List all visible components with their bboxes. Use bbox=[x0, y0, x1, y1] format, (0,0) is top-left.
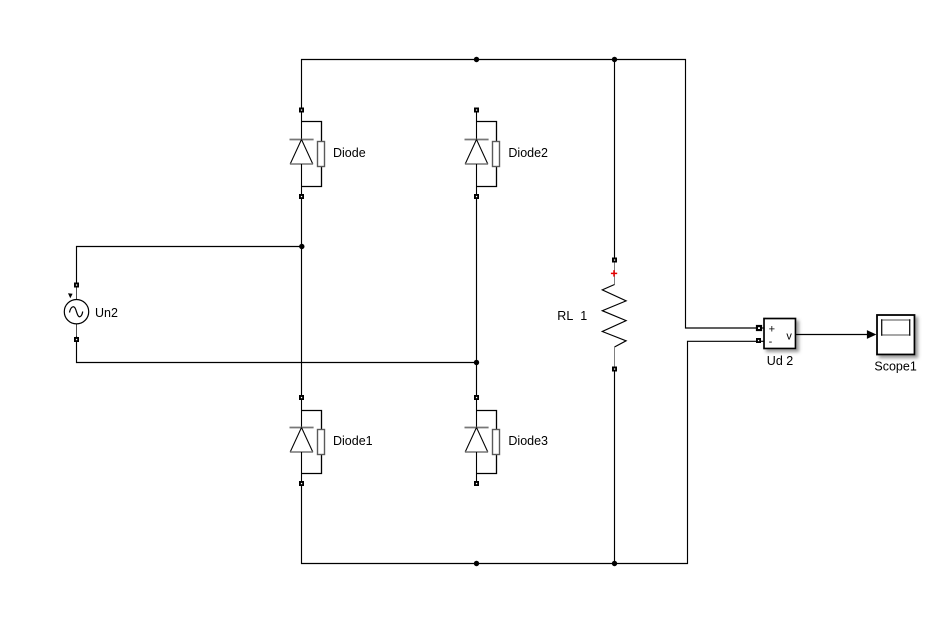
node junction dot bottom rail at Diode3 column bbox=[474, 561, 479, 566]
port Un2 top bbox=[74, 283, 79, 288]
port RL top bbox=[612, 258, 617, 263]
port Diode1 bottom bbox=[299, 481, 304, 486]
svg-text:Diode3: Diode3 bbox=[508, 434, 548, 448]
diode Diode1 (bottom-left) bbox=[290, 400, 325, 481]
node junction dot top rail at RL column bbox=[612, 57, 617, 62]
port Diode2 top bbox=[474, 108, 479, 113]
label Diode2 bbox=[508, 146, 548, 160]
voltage measurement block Ud 2 bbox=[764, 319, 796, 349]
wire top positive rail bbox=[302, 60, 757, 329]
wire Ud2 output to Scope1 with arrow bbox=[796, 330, 877, 339]
diode Diode3 (bottom-right) bbox=[465, 400, 500, 481]
svg-text:Un2: Un2 bbox=[95, 306, 118, 320]
AC voltage source Un2 bbox=[64, 288, 88, 337]
wire bottom negative rail bbox=[302, 341, 757, 563]
label Un2 bbox=[95, 306, 118, 320]
port Diode3 top bbox=[474, 395, 479, 400]
svg-text:-: - bbox=[769, 336, 773, 348]
svg-text:Diode: Diode bbox=[333, 146, 366, 160]
svg-text:RL 1: RL 1 bbox=[557, 309, 587, 323]
label Ud 2 bbox=[767, 354, 793, 368]
label Diode1 bbox=[333, 434, 373, 448]
port Diode1 top bbox=[299, 395, 304, 400]
svg-text:v: v bbox=[786, 330, 792, 342]
wire source top to bridge left node bbox=[77, 247, 303, 288]
port Diode top bbox=[299, 108, 304, 113]
svg-text:Ud 2: Ud 2 bbox=[767, 354, 793, 368]
port RL bottom bbox=[612, 367, 617, 372]
wire RL column bottom bbox=[614, 372, 616, 564]
svg-text:Diode1: Diode1 bbox=[333, 434, 373, 448]
resistor RL 1 load branch bbox=[602, 263, 626, 367]
node junction dot right bridge node bbox=[474, 360, 479, 365]
node junction dot at left bridge node bbox=[299, 244, 304, 249]
svg-text:Diode2: Diode2 bbox=[508, 146, 548, 160]
label Scope1 bbox=[874, 359, 916, 373]
port Diode bottom bbox=[299, 194, 304, 199]
wire left column Diode cathode to Diode1 anode bbox=[301, 197, 303, 398]
node junction dot top rail at Diode2 column bbox=[474, 57, 479, 62]
svg-text:Scope1: Scope1 bbox=[874, 359, 916, 373]
label Diode bbox=[333, 146, 366, 160]
diode Diode2 (top-right) bbox=[465, 113, 500, 195]
label RL 1 bbox=[557, 309, 587, 323]
port Un2 bottom bbox=[74, 337, 79, 342]
label Diode3 bbox=[508, 434, 548, 448]
node junction dot bottom rail at RL column bbox=[612, 561, 617, 566]
wire right column Diode2 cathode to Diode3 anode bbox=[476, 197, 478, 398]
RL 1 polarity plus mark bbox=[611, 270, 617, 276]
wire source bottom to bridge right node bbox=[77, 337, 478, 363]
scope block Scope1 bbox=[877, 315, 915, 355]
port Diode3 bottom bbox=[474, 481, 479, 486]
port Ud2 plus input bbox=[756, 325, 764, 331]
port Ud2 minus input bbox=[756, 338, 764, 343]
diode Diode (top-left) bbox=[290, 113, 325, 195]
svg-text:+: + bbox=[769, 324, 775, 336]
wire RL column top bbox=[614, 60, 616, 259]
port Diode2 bottom bbox=[474, 194, 479, 199]
